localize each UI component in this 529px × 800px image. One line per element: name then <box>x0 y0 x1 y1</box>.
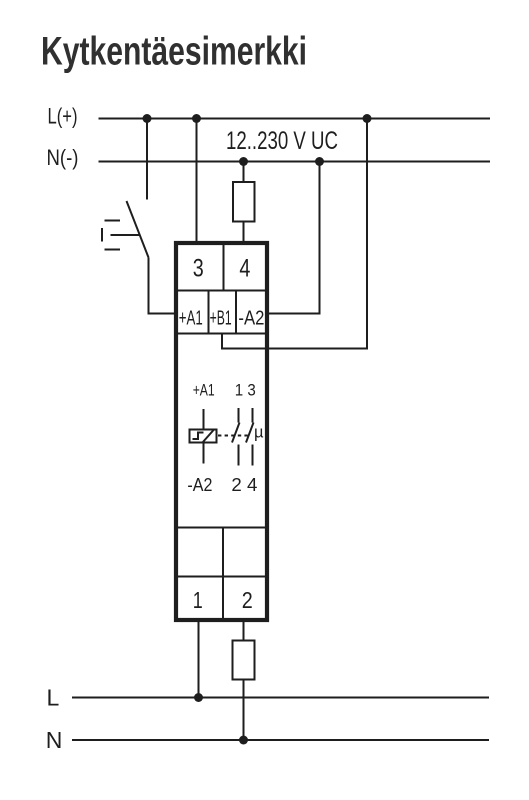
svg-text:1: 1 <box>193 587 203 613</box>
wire N(-) rail to terminal -A2 <box>269 162 320 314</box>
svg-text:+A1: +A1 <box>179 308 203 330</box>
switch S1 manual actuator <box>102 221 140 250</box>
resistor R2 <box>233 641 255 680</box>
svg-text:N(-): N(-) <box>47 145 79 170</box>
contact 3-4 blade <box>246 423 254 443</box>
svg-text:L: L <box>47 685 60 711</box>
junction on L(+) above switch <box>143 114 152 123</box>
svg-text:-A2: -A2 <box>187 474 212 495</box>
divider above empty lower cells <box>176 527 267 529</box>
svg-text:N: N <box>46 727 63 753</box>
svg-text:4: 4 <box>239 255 250 283</box>
dashed mechanical link <box>218 435 251 437</box>
coil K1 upper lead <box>203 409 205 430</box>
junction terminal 1 on bottom L rail <box>194 693 203 702</box>
wire terminal 2 to resistor R2 <box>243 620 245 641</box>
junction resistor R2 on bottom N rail <box>239 736 248 745</box>
wire L bottom rail <box>72 697 489 699</box>
svg-text:Kytkentäesimerkki: Kytkentäesimerkki <box>41 30 307 74</box>
wire N bottom rail <box>72 739 489 741</box>
wire L(+) top rail <box>99 118 491 120</box>
junction on L(+) feeding +B1 <box>363 114 372 123</box>
divider between +A1 and +B1 cells <box>208 291 210 334</box>
divider between empty lower cells <box>222 528 224 577</box>
contact 3-4 fixed leads <box>252 408 254 466</box>
divider between terminal cells 3 and 4 <box>223 243 225 291</box>
coil K1 body <box>190 430 217 443</box>
wire resistor R1 to terminal 4 <box>243 222 245 244</box>
coil K1 lower lead <box>203 443 205 464</box>
resistor R1 <box>233 182 255 222</box>
svg-text:3: 3 <box>193 255 204 283</box>
junction on L(+) above terminal 3 <box>192 114 201 123</box>
svg-text:L(+): L(+) <box>48 104 78 129</box>
svg-text:2 4: 2 4 <box>231 474 257 495</box>
contact 1-2 fixed leads <box>238 408 240 466</box>
wire switch to terminal +A1 <box>149 258 177 314</box>
contact 1-2 blade <box>232 423 240 443</box>
divider between +B1 and -A2 cells <box>235 291 237 334</box>
divider between terminal cells 1 and 2 <box>222 577 224 621</box>
coil K1 hysteresis step <box>193 433 204 440</box>
wire resistor R2 to bottom N rail <box>243 680 245 741</box>
svg-text:2: 2 <box>242 587 253 613</box>
divider below terminal row 3/4 <box>176 290 267 292</box>
wire N(-) top rail <box>99 161 491 163</box>
junction on N(-) above resistor R1 <box>239 157 248 166</box>
wire L(+) rail down to terminal 3 <box>196 119 198 244</box>
junction on N(-) feeding -A2 <box>315 157 324 166</box>
coil K1 diagonal stroke <box>203 430 215 443</box>
wire L(+) rail to terminal +B1 <box>222 119 367 349</box>
wire terminal 1 to bottom L rail <box>198 620 200 698</box>
wire N(-) rail down to resistor R1 <box>243 162 245 183</box>
divider above terminal cells 1 and 2 <box>176 576 267 578</box>
svg-text:12..230 V UC: 12..230 V UC <box>226 127 338 155</box>
divider below terminal row A1/B1/A2 <box>176 333 267 335</box>
switch S1 blade <box>127 201 149 258</box>
wire from L(+) rail down to switch <box>146 119 148 200</box>
svg-text:µ: µ <box>254 424 264 442</box>
svg-text:+B1: +B1 <box>210 308 232 330</box>
relay device box U1 outline <box>176 243 267 620</box>
svg-text:1 3: 1 3 <box>235 381 256 400</box>
svg-text:+A1: +A1 <box>193 381 215 400</box>
svg-text:-A2: -A2 <box>238 308 264 330</box>
